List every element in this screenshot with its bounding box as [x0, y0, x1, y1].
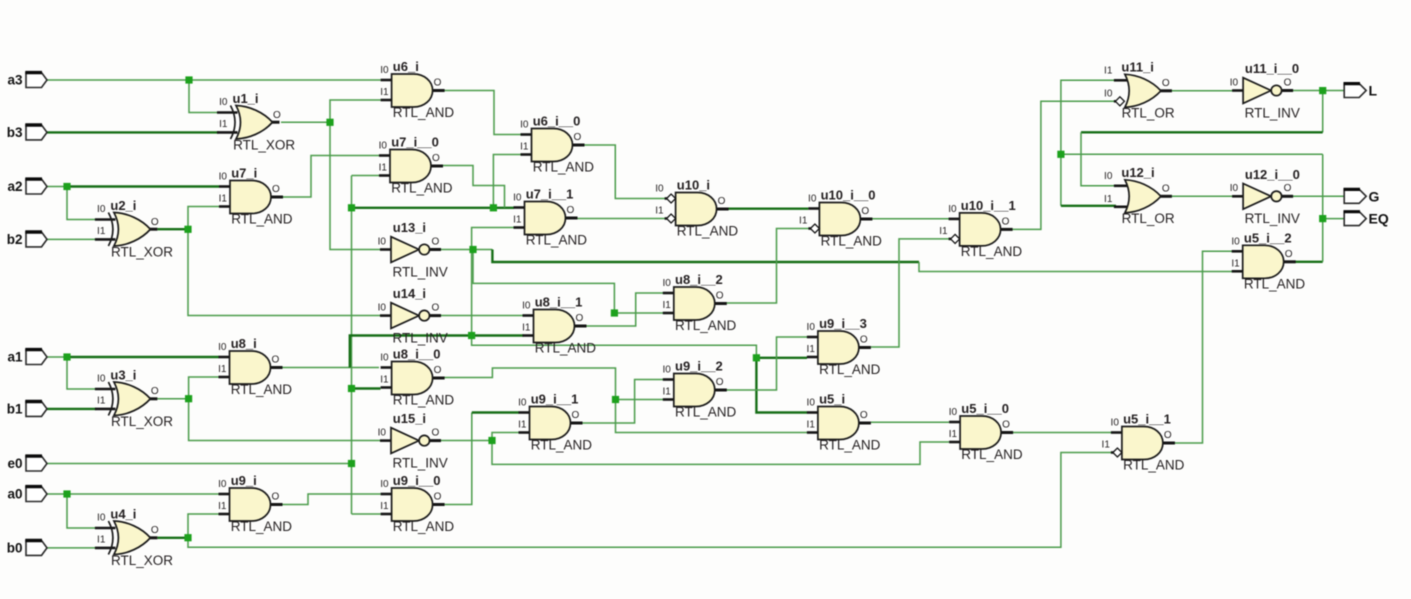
svg-text:I0: I0	[1230, 183, 1239, 194]
svg-text:u7_i: u7_i	[231, 166, 257, 181]
output port L	[1344, 83, 1378, 99]
junction u15 output branch	[488, 437, 495, 444]
junction EQ port branch	[1319, 215, 1326, 222]
svg-text:u11_i__0: u11_i__0	[1245, 61, 1299, 76]
svg-text:RTL_AND: RTL_AND	[231, 382, 293, 397]
wire u9_i__0 output thick into u9_i__1 I0	[472, 411, 519, 413]
svg-text:I1: I1	[97, 226, 106, 237]
AND gate u8_i	[218, 336, 292, 397]
svg-text:I0: I0	[948, 204, 957, 215]
wire u8_i__0 output to u5_i I1	[616, 400, 808, 433]
svg-text:a3: a3	[7, 73, 23, 88]
svg-text:RTL_AND: RTL_AND	[675, 405, 737, 420]
INV gate u14_i	[378, 286, 448, 345]
svg-text:O: O	[272, 355, 280, 366]
AND gate u10_i	[655, 178, 738, 239]
AND gate u9_i__3	[807, 316, 881, 377]
svg-text:u5_i__0: u5_i__0	[961, 401, 1009, 416]
svg-text:u9_i__2: u9_i__2	[675, 359, 723, 374]
wire e0 port line	[47, 463, 352, 465]
svg-text:I0: I0	[378, 427, 387, 438]
input port a3	[7, 73, 47, 88]
wire b0 to u4_i I1	[47, 547, 96, 549]
wire u7_i__0 output to u7_i__1 I0	[441, 166, 505, 208]
wire x3 to u6_i I1	[330, 100, 381, 122]
wire e0 to u7_i__0 I1	[352, 175, 380, 177]
wire u2_i output to junction	[158, 228, 189, 230]
wire EQ thick to u12_i I1	[1061, 205, 1116, 207]
svg-text:O: O	[1002, 217, 1010, 228]
svg-text:I0: I0	[808, 194, 817, 205]
AND gate u6_i__0	[520, 114, 594, 175]
INV gate u11_i__0	[1230, 61, 1300, 120]
svg-text:u7_i__0: u7_i__0	[391, 135, 439, 150]
svg-text:O: O	[1284, 77, 1292, 88]
svg-text:I0: I0	[380, 65, 389, 76]
svg-text:RTL_AND: RTL_AND	[231, 212, 293, 227]
junction e0 at u8_i__0 I1	[348, 385, 355, 392]
wire e0 y208 line to u7_i__1 I0	[352, 207, 515, 209]
AND gate u8_i__2	[662, 272, 736, 333]
AND gate u6_i	[380, 59, 454, 120]
wire L to u12_i I0	[1081, 132, 1116, 186]
AND gate u7_i__0	[379, 135, 453, 196]
svg-text:RTL_AND: RTL_AND	[393, 105, 455, 120]
svg-text:I0: I0	[662, 365, 671, 376]
svg-text:b0: b0	[7, 541, 23, 556]
wire u13 net to u8_i__2 I1	[473, 250, 663, 314]
svg-text:O: O	[272, 184, 280, 195]
svg-text:RTL_INV: RTL_INV	[393, 264, 448, 279]
svg-text:I0: I0	[655, 184, 664, 195]
input port a2	[7, 179, 47, 194]
wire EQ to u11_i I1	[1061, 80, 1115, 154]
svg-text:u10_i: u10_i	[677, 178, 710, 193]
svg-text:I0: I0	[513, 193, 522, 204]
junction e0 at y208	[348, 204, 355, 211]
wire u8_i output branch to u8_i__1 I1	[350, 336, 524, 368]
svg-text:a2: a2	[7, 179, 22, 194]
svg-text:RTL_INV: RTL_INV	[393, 455, 448, 470]
svg-text:I1: I1	[1104, 194, 1113, 205]
svg-text:u9_i__1: u9_i__1	[531, 392, 579, 407]
svg-text:u15_i: u15_i	[393, 411, 426, 426]
wire b1 to u3_i I1	[47, 408, 96, 410]
junction a0 branch	[63, 490, 70, 497]
wire EQ to port	[1323, 218, 1345, 220]
svg-text:b1: b1	[7, 402, 23, 417]
svg-text:a1: a1	[7, 350, 23, 365]
AND gate u9_i__1	[518, 392, 592, 453]
wire u1_i output to junction	[281, 121, 330, 123]
wire u15 net long to u5_i__0 I1	[492, 441, 949, 465]
input port b3	[7, 125, 47, 140]
svg-text:RTL_AND: RTL_AND	[231, 519, 293, 534]
AND gate u7_i	[219, 166, 293, 227]
junction u1_i output	[326, 119, 333, 126]
svg-text:I1: I1	[97, 395, 106, 406]
wire u7_i output to u7_i__0 I0	[283, 156, 379, 198]
svg-text:O: O	[273, 110, 281, 121]
svg-text:I1: I1	[662, 387, 671, 398]
wire x2 to u14_i I0	[188, 229, 381, 315]
svg-text:RTL_AND: RTL_AND	[821, 234, 883, 249]
svg-text:I0: I0	[522, 301, 531, 312]
svg-text:I1: I1	[97, 534, 106, 545]
AND gate u5_i	[807, 392, 881, 453]
junction u13 output branch	[469, 246, 476, 253]
wire EQ vertical	[1322, 154, 1324, 261]
svg-text:I1: I1	[655, 206, 664, 217]
svg-text:I0: I0	[218, 342, 227, 353]
wire u13 net eq-chain thick	[492, 250, 919, 263]
wire u6_i__0 output to u10_i I0	[584, 145, 667, 199]
svg-text:I1: I1	[218, 501, 227, 512]
AND gate u8_i__1	[522, 295, 596, 356]
svg-text:I1: I1	[799, 216, 808, 227]
svg-text:I0: I0	[662, 278, 671, 289]
AND gate u10_i__1	[939, 198, 1022, 259]
svg-text:O: O	[861, 206, 869, 217]
wire u4_i output to junction	[158, 537, 189, 539]
wire a2 thick to u7_i I0	[66, 185, 219, 187]
svg-text:I1: I1	[380, 501, 389, 512]
svg-text:O: O	[576, 313, 584, 324]
wire u9_i output to u9_i__0 I0	[283, 494, 381, 505]
svg-text:I1: I1	[1104, 65, 1113, 76]
wire a1 thick to u8_i I0	[66, 356, 219, 358]
INV gate u15_i	[378, 411, 448, 470]
svg-text:O: O	[151, 525, 159, 536]
AND gate u5_i__1	[1102, 412, 1185, 473]
wire u15_i output	[441, 440, 492, 442]
svg-text:O: O	[434, 365, 442, 376]
svg-text:RTL_AND: RTL_AND	[677, 224, 739, 239]
svg-text:u12_i: u12_i	[1121, 165, 1154, 180]
svg-text:I0: I0	[1111, 418, 1120, 429]
svg-text:u3_i: u3_i	[110, 368, 136, 383]
svg-text:O: O	[1284, 183, 1292, 194]
wire a2 to u7_i I0	[47, 186, 67, 188]
svg-text:O: O	[574, 132, 582, 143]
wire e0 to u8_i__0 I1	[352, 387, 381, 389]
junction u4_i output	[184, 534, 191, 541]
svg-text:RTL_OR: RTL_OR	[1122, 106, 1175, 121]
svg-text:u10_i__1: u10_i__1	[961, 198, 1016, 213]
wire u8_i__1 output to u8_i__2 I0	[586, 293, 663, 326]
svg-text:u8_i__2: u8_i__2	[675, 272, 723, 287]
wire u9_i__0 output to u9_i__1 I0	[445, 413, 472, 505]
AND gate u7_i__1	[513, 187, 587, 248]
svg-text:O: O	[434, 492, 442, 503]
svg-text:O: O	[432, 302, 440, 313]
wire e0 branch to u6_i__0 I1	[493, 155, 520, 208]
svg-text:u8_i: u8_i	[231, 336, 257, 351]
svg-text:RTL_AND: RTL_AND	[961, 244, 1023, 259]
wire u11_i__0 output to L port	[1292, 90, 1344, 92]
svg-text:I1: I1	[379, 163, 388, 174]
svg-text:O: O	[1285, 249, 1293, 260]
output port G	[1344, 188, 1380, 204]
wire u7_i__1 output to u10_i I1	[577, 218, 667, 220]
svg-text:I0: I0	[949, 407, 958, 418]
svg-text:I1: I1	[939, 226, 948, 237]
wire x3 to u13_i I0	[330, 122, 381, 249]
wire x0 to u9_i I1	[188, 514, 219, 538]
svg-text:I1: I1	[807, 344, 816, 355]
svg-text:I0: I0	[1231, 236, 1240, 247]
wire a1 branch to u3_i I0	[67, 357, 96, 389]
svg-text:RTL_AND: RTL_AND	[533, 160, 595, 175]
wire x1 to u8_i I1	[189, 377, 219, 399]
svg-text:I1: I1	[380, 87, 389, 98]
svg-text:RTL_INV: RTL_INV	[393, 330, 448, 345]
svg-text:O: O	[572, 410, 580, 421]
svg-text:I0: I0	[378, 236, 387, 247]
svg-text:I1: I1	[949, 429, 958, 440]
svg-text:O: O	[860, 335, 868, 346]
OR gate u12_i	[1104, 165, 1175, 226]
svg-text:RTL_INV: RTL_INV	[1245, 105, 1300, 120]
svg-text:RTL_AND: RTL_AND	[819, 438, 881, 453]
svg-text:RTL_AND: RTL_AND	[393, 519, 455, 534]
AND gate u5_i__2	[1231, 231, 1305, 292]
wire u11_i output to u11_i__0	[1170, 90, 1233, 92]
svg-text:O: O	[718, 196, 726, 207]
svg-text:I1: I1	[380, 375, 389, 386]
wire u9_i__1 output to u9_i__2 I0	[581, 380, 663, 424]
INV gate u13_i	[378, 220, 448, 279]
junction EQ line branch	[1057, 151, 1064, 158]
wire u13_i output	[441, 249, 492, 251]
svg-text:u5_i__1: u5_i__1	[1123, 412, 1171, 427]
INV gate u12_i__0	[1230, 167, 1300, 226]
svg-text:u8_i__0: u8_i__0	[393, 347, 441, 362]
wire u10_i__1 output to u11_i I0	[1012, 101, 1115, 229]
wire u9_i__2 output to u9_i__3 I0	[726, 337, 807, 390]
svg-text:I1: I1	[219, 194, 228, 205]
wire a3 branch to u1_i I0	[189, 80, 219, 113]
wire a2 branch to u2_i I0	[67, 187, 96, 220]
wire u14_i output	[441, 315, 523, 317]
junction a1 branch	[63, 353, 70, 360]
wire u3_i output to junction	[158, 398, 189, 400]
svg-text:I0: I0	[97, 374, 106, 385]
svg-text:u6_i__0: u6_i__0	[533, 114, 581, 129]
junction u14 net branch	[753, 354, 760, 361]
XOR gate u3_i	[95, 368, 173, 430]
wire a1 to junction	[47, 356, 67, 358]
svg-text:I0: I0	[807, 322, 816, 333]
AND gate u9_i	[218, 473, 292, 534]
svg-text:O: O	[432, 427, 440, 438]
svg-text:I1: I1	[513, 215, 522, 226]
input port a1	[7, 350, 47, 365]
XOR gate u1_i	[217, 91, 295, 153]
svg-text:RTL_OR: RTL_OR	[1122, 211, 1175, 226]
svg-text:u4_i: u4_i	[110, 507, 136, 522]
svg-text:O: O	[432, 153, 440, 164]
wire feed to u5_i I0	[756, 358, 807, 413]
svg-text:RTL_AND: RTL_AND	[531, 438, 593, 453]
svg-text:I0: I0	[520, 120, 529, 131]
svg-text:RTL_AND: RTL_AND	[675, 318, 737, 333]
wire u10_i output to u10_i__0 I0	[728, 207, 808, 209]
wire b2 to u2_i I1	[47, 238, 96, 240]
wire u15 net to u9_i__1 I1	[492, 433, 519, 441]
XOR gate u2_i	[95, 198, 173, 260]
svg-text:I1: I1	[518, 420, 527, 431]
svg-text:I0: I0	[378, 302, 387, 313]
svg-text:RTL_XOR: RTL_XOR	[111, 414, 173, 429]
svg-text:O: O	[1002, 420, 1010, 431]
wire u8_i output to u8_i__0 I0	[283, 367, 380, 369]
XOR gate u4_i	[95, 507, 173, 569]
wire x0 long line to u5_i__1 I1	[188, 453, 1113, 548]
wire u7_i__1 I1 vertical feed	[472, 228, 757, 358]
svg-text:I1: I1	[218, 364, 227, 375]
wire e0 trunk vertical	[351, 176, 353, 515]
svg-text:RTL_XOR: RTL_XOR	[111, 245, 173, 260]
svg-text:RTL_XOR: RTL_XOR	[111, 553, 173, 568]
junction a2 branch	[63, 183, 70, 190]
svg-text:O: O	[567, 205, 575, 216]
svg-text:I0: I0	[97, 204, 106, 215]
OR gate u11_i	[1104, 60, 1175, 121]
svg-text:RTL_XOR: RTL_XOR	[233, 138, 295, 153]
svg-text:a0: a0	[7, 487, 22, 502]
junction e0 branch at 493	[490, 204, 497, 211]
svg-text:u5_i__2: u5_i__2	[1244, 231, 1292, 246]
input port b2	[7, 232, 47, 247]
svg-text:u2_i: u2_i	[110, 198, 136, 213]
svg-text:u9_i__3: u9_i__3	[819, 316, 867, 331]
svg-text:I0: I0	[1104, 88, 1113, 99]
svg-text:I0: I0	[219, 97, 228, 108]
wire x1 to u15_i I0	[189, 399, 381, 441]
svg-text:I0: I0	[1104, 171, 1113, 182]
svg-text:O: O	[151, 386, 159, 397]
svg-text:I1: I1	[1102, 440, 1111, 451]
svg-text:I0: I0	[219, 172, 228, 183]
svg-text:O: O	[1162, 78, 1170, 89]
svg-text:RTL_INV: RTL_INV	[1245, 211, 1300, 226]
svg-text:RTL_AND: RTL_AND	[526, 233, 588, 248]
svg-text:O: O	[1164, 430, 1172, 441]
svg-text:I1: I1	[522, 323, 531, 334]
svg-text:I0: I0	[379, 141, 388, 152]
wire u8_i__2 output to u10_i__0 I1	[726, 229, 810, 304]
input port a0	[7, 487, 47, 502]
svg-text:I0: I0	[380, 479, 389, 490]
wire u5_i output to u5_i__0 I0	[871, 421, 949, 423]
wire L thick line	[1081, 131, 1323, 133]
svg-text:u5_i: u5_i	[819, 392, 845, 407]
wire a0 to u9_i I0	[47, 493, 219, 495]
wire feed to u9_i__3 I1	[756, 357, 807, 359]
svg-text:I1: I1	[662, 300, 671, 311]
output port EQ	[1344, 211, 1389, 227]
svg-text:O: O	[432, 236, 440, 247]
input port e0	[7, 456, 47, 471]
svg-text:O: O	[434, 78, 442, 89]
svg-text:I1: I1	[219, 119, 228, 130]
svg-text:u7_i__1: u7_i__1	[526, 187, 574, 202]
wire e0 to u9_i__0 I1	[352, 513, 381, 515]
wire EQ long line	[1061, 153, 1323, 155]
svg-text:u6_i: u6_i	[393, 59, 419, 74]
wire eq-chain jog to u5_i__2 I1	[919, 262, 1235, 272]
wire u5_i__2 output thick	[1295, 261, 1323, 263]
svg-text:RTL_AND: RTL_AND	[393, 393, 455, 408]
svg-text:u8_i__1: u8_i__1	[535, 295, 583, 310]
junction u13 net at u8_i__2 I1	[611, 309, 618, 316]
svg-text:I0: I0	[97, 513, 106, 524]
junction u8_i__0 out branch	[612, 396, 619, 403]
input port b1	[7, 401, 47, 416]
AND gate u9_i__0	[380, 473, 454, 534]
wire u9_i__3 output to u10_i__1 I1	[871, 239, 951, 347]
svg-text:u14_i: u14_i	[393, 286, 426, 301]
svg-text:RTL_AND: RTL_AND	[391, 181, 453, 196]
wire a0 branch to u4_i I0	[67, 494, 96, 528]
AND gate u9_i__2	[662, 359, 736, 420]
svg-text:O: O	[716, 291, 724, 302]
svg-text:e0: e0	[7, 456, 22, 471]
AND gate u10_i__0	[799, 188, 882, 249]
wire u12_i__0 output to G port	[1292, 195, 1344, 197]
svg-text:u9_i: u9_i	[231, 473, 257, 488]
wire EQ vertical to u12_i I1	[1060, 154, 1062, 206]
svg-text:RTL_AND: RTL_AND	[961, 447, 1023, 462]
svg-text:O: O	[1162, 184, 1170, 195]
svg-text:u10_i__0: u10_i__0	[821, 188, 876, 203]
svg-text:u9_i__0: u9_i__0	[393, 473, 441, 488]
svg-text:EQ: EQ	[1369, 211, 1389, 227]
wire u5_i__0 output to u5_i__1 I0	[1013, 432, 1111, 434]
wire u12_i output to u12_i__0	[1170, 195, 1233, 197]
junction crossing at u8 branch	[468, 332, 475, 339]
svg-text:O: O	[860, 410, 868, 421]
wire a3 to u6_i I0	[47, 79, 381, 81]
svg-text:I0: I0	[380, 353, 389, 364]
svg-text:L: L	[1369, 83, 1378, 99]
svg-text:G: G	[1369, 188, 1380, 204]
svg-text:I0: I0	[807, 398, 816, 409]
svg-text:I0: I0	[1230, 77, 1239, 88]
junction u2_i output	[184, 226, 191, 233]
wire x2 to u7_i I1	[188, 207, 219, 230]
svg-text:I1: I1	[520, 142, 529, 153]
wire u8_i__0 output to u9_i__2 I1	[443, 368, 663, 400]
wire b3 to u1_i I1	[47, 131, 219, 133]
junction u3_i output	[185, 395, 192, 402]
wire u5_i__1 output to u5_i__2 I0	[1174, 251, 1239, 443]
wire L branch vertical	[1322, 91, 1324, 133]
svg-text:RTL_AND: RTL_AND	[1244, 276, 1306, 291]
svg-text:I1: I1	[1231, 258, 1240, 269]
input port b0	[7, 540, 47, 555]
svg-text:b2: b2	[7, 232, 23, 247]
svg-text:I1: I1	[807, 420, 816, 431]
svg-text:I0: I0	[218, 479, 227, 490]
svg-text:u12_i__0: u12_i__0	[1245, 167, 1300, 182]
svg-text:O: O	[272, 492, 280, 503]
svg-text:u13_i: u13_i	[393, 220, 426, 235]
svg-text:u11_i: u11_i	[1121, 60, 1154, 75]
svg-text:RTL_AND: RTL_AND	[1123, 458, 1185, 473]
svg-text:O: O	[151, 217, 159, 228]
